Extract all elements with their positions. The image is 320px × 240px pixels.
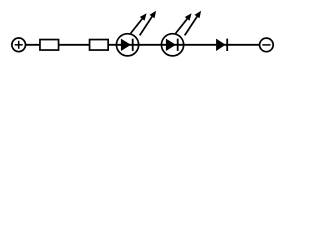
LED D1 triangle: [121, 39, 131, 51]
diode D3 triangle: [216, 39, 226, 51]
LED D2 arrow 1: [176, 13, 192, 33]
diode D3 cathode bar: [226, 39, 228, 51]
LED D1 arrow 1: [131, 13, 147, 33]
LED D2 circle: [161, 34, 183, 56]
battery positive terminal: [12, 38, 26, 52]
LED D2 triangle: [166, 39, 176, 51]
LED D2 arrow 2: [185, 11, 201, 36]
LED D1 cathode bar: [132, 39, 134, 51]
LED D2 cathode bar: [177, 39, 179, 51]
LED D1 arrow 2: [140, 11, 156, 36]
plus sign: [15, 41, 23, 49]
LED D1 circle: [116, 34, 138, 56]
wire: [26, 44, 261, 46]
resistor R1: [40, 40, 59, 51]
battery negative terminal: [260, 38, 274, 52]
minus sign: [262, 44, 270, 46]
resistor R2: [90, 40, 109, 51]
